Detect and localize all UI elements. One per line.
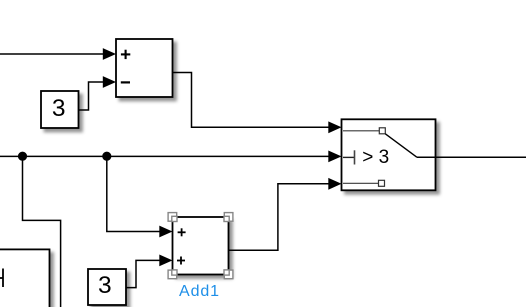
adder block Add1 [173, 217, 229, 275]
partial block bottom-left (clipped at canvas edge) [0, 249, 50, 307]
constant C1 [41, 91, 79, 128]
wire W5: branch from J1 down and off bottom edge [23, 156, 61, 307]
svg-text:Add1: Add1 [179, 283, 220, 300]
svg-text:3: 3 [98, 272, 112, 299]
junction dot J1 [18, 152, 27, 161]
selection handle Add1 bottom-left [168, 270, 177, 279]
selection handle Add1 bottom-right [224, 270, 233, 279]
svg-text:3: 3 [52, 95, 66, 122]
wire W6: branch from J2 to Add1 input 1 [107, 156, 173, 237]
clipped icon glyph [0, 269, 3, 288]
svg-text:> 3: > 3 [362, 147, 389, 168]
wire W4: main horizontal wire to Switch input 2 [0, 151, 342, 163]
wire W1: external input to Sum + port [0, 48, 116, 60]
minus port sign [121, 81, 130, 83]
wire W3: Sum output down to Switch input 1 [173, 73, 342, 134]
switch wiper diagonal [385, 134, 417, 158]
plus sign input 2 [177, 257, 185, 265]
wire from C1 to Sum - port [79, 76, 117, 110]
plus sign input 1 [178, 228, 186, 236]
junction dot J2 [102, 152, 111, 161]
constant C2 [88, 269, 126, 305]
selection handle Add1 top-left [168, 213, 177, 222]
wire W7: C2 to Add1 input 2 [126, 255, 173, 288]
port 2 tick bar [354, 150, 356, 164]
selection handle Add1 top-right [224, 213, 233, 222]
wire W9: switch output to right edge [417, 156, 526, 158]
switch block U1 [342, 119, 436, 190]
port 1 square [379, 128, 385, 134]
port 1 internal line [343, 130, 379, 132]
port 3 internal line [343, 182, 379, 184]
sum block Subtract [116, 39, 173, 97]
wire W8: Add1 output to Switch input 3 [229, 178, 342, 250]
plus port sign [121, 50, 130, 59]
port 2 stub [343, 156, 355, 158]
port 3 square [379, 180, 385, 186]
